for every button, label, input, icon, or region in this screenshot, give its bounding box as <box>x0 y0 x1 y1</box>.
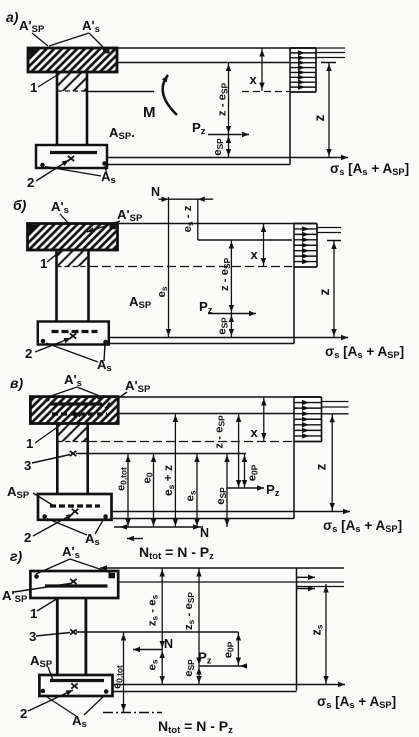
label e0P rotated (fig v) <box>247 464 260 481</box>
label A's (fig b) <box>51 199 69 216</box>
x-mark level line (fig g) <box>118 581 344 583</box>
svg-text:eSP: eSP <box>217 317 230 335</box>
svg-text:1: 1 <box>40 256 47 271</box>
svg-text:e0P: e0P <box>223 641 236 658</box>
bottom flange (fig g) <box>39 675 112 696</box>
A'SP level line (fig a) <box>117 62 336 64</box>
label zs-es rotated (fig g) <box>147 594 160 626</box>
sub-figure label a) <box>6 9 19 25</box>
svg-text:1: 1 <box>30 606 37 621</box>
A'SP level line (fig v) <box>118 413 348 415</box>
label 1 with leader (fig a) <box>30 75 58 96</box>
label e0tot rotated (fig g) <box>112 665 125 689</box>
corner square marker (fig b) <box>110 224 117 230</box>
x-mark tendon (fig b) <box>70 333 76 338</box>
svg-text:zs - eSP: zs - eSP <box>183 592 196 630</box>
label A's (top mild steel, fig a) <box>82 18 100 35</box>
label e0tot rotated (fig v) <box>116 467 129 491</box>
label eSP rotated (fig a) <box>212 138 225 156</box>
flange top line extended (fig b) <box>118 223 318 225</box>
corner square marker (fig a) <box>103 48 110 54</box>
x-mark top bar (fig g) <box>70 579 76 584</box>
label ASP region (fig a) <box>109 125 135 142</box>
dimension e0P (fig v) <box>242 454 247 489</box>
svg-text:es: es <box>185 490 198 501</box>
bar lines right of block (fig a) <box>316 48 345 58</box>
dimension e0P (fig g) <box>236 632 241 666</box>
label A'SP with leader (fig g) <box>2 584 70 606</box>
svg-text:M: M <box>143 104 156 121</box>
label A'SP (top steel prestressed, fig a) <box>19 18 45 35</box>
label 1 with leader (fig g) <box>30 598 59 622</box>
neutral axis dashed (fig v) <box>88 441 292 443</box>
dimension zs (fig g) <box>323 584 328 685</box>
svg-text:г): г) <box>10 548 22 564</box>
svg-text:z - eSP: z - eSP <box>219 257 232 291</box>
bottom flange (fig a) <box>36 145 107 168</box>
dimension e0tot (fig v) <box>125 454 130 528</box>
neutral axis dashed line (fig a) <box>88 91 290 93</box>
label es rotated (fig g) <box>147 659 160 670</box>
bottom steel dots (fig b) <box>41 339 108 345</box>
web compression hatch (fig a) <box>57 72 87 91</box>
bottom tension line with sigma arrow (fig v) <box>113 509 350 514</box>
svg-text:N: N <box>164 637 173 651</box>
dimension zs-es / es (fig g) <box>160 568 165 685</box>
axis line from mark 3 (fig v) <box>76 453 246 455</box>
neutral axis dashed (fig b) <box>89 266 292 268</box>
svg-text:z: z <box>317 288 332 295</box>
top flange hatched (fig v) <box>30 397 118 424</box>
dimension eSP (fig v) <box>224 454 229 528</box>
top dimension bar es-z (fig b) <box>158 197 213 202</box>
label eSP rotated (fig v) <box>215 487 228 505</box>
main vertical frame line (fig v) <box>293 397 295 519</box>
tendon bar dashed (fig b) <box>52 330 98 333</box>
dimension zs-eSP / eSP (fig g) <box>196 568 201 685</box>
svg-text:1: 1 <box>26 436 33 451</box>
top flange (fig g) <box>30 571 118 598</box>
dimension es (fig v) <box>194 454 199 528</box>
web (fig b) <box>57 250 89 322</box>
label zs rotated (fig g) <box>310 624 325 635</box>
svg-text:б): б) <box>13 197 27 213</box>
label sigma_s(As+ASP) (fig a) <box>330 161 409 177</box>
x depth dimension (fig a) <box>250 48 265 91</box>
label eSP rotated (fig g) <box>183 659 196 677</box>
web compression hatch (fig b) <box>57 250 89 267</box>
label sigma_s(As+ASP) (fig b) <box>325 344 404 360</box>
svg-text:z: z <box>312 114 327 121</box>
x-mark tendon (fig g) <box>71 683 77 688</box>
dimension z (fig b) <box>331 241 336 338</box>
second bottom line (fig g) <box>113 691 297 693</box>
bar lines right of block (fig v) <box>322 402 349 408</box>
top flange hatched (fig b) <box>28 224 118 251</box>
moment arrow M (fig a) <box>143 75 177 121</box>
svg-text:2: 2 <box>25 346 32 361</box>
svg-text:2: 2 <box>27 175 34 190</box>
second bottom line (fig v) <box>113 518 294 520</box>
svg-text:x: x <box>251 247 259 262</box>
svg-text:3: 3 <box>29 629 36 644</box>
svg-text:eSP: eSP <box>215 487 228 505</box>
svg-text:e0,tot: e0,tot <box>112 665 125 689</box>
A'SP level line (fig b) <box>198 239 341 242</box>
svg-text:e0P: e0P <box>247 464 260 481</box>
svg-text:es + z: es + z <box>161 465 176 496</box>
top flange hatched (fig a) <box>28 48 117 72</box>
label 1 with leader (fig b) <box>40 250 62 271</box>
label z rotated (fig b) <box>317 288 332 295</box>
corner triangle marker (fig b) <box>29 225 39 233</box>
svg-text:e0: e0 <box>142 472 155 483</box>
svg-text:2: 2 <box>20 706 27 721</box>
label es rotated (fig b) <box>156 286 169 297</box>
label 2 with leader (fig g) <box>20 690 73 721</box>
main vertical frame line (fig b) <box>293 224 295 344</box>
label z-eSP rotated (fig b) <box>219 257 232 291</box>
force Pz (fig v) <box>227 482 280 499</box>
bottom tension line with sigma arrow (fig b) <box>109 335 348 340</box>
svg-text:z - eSP: z - eSP <box>217 82 230 116</box>
bottom flange (fig v) <box>38 494 112 520</box>
dimension z (fig v) <box>330 414 335 512</box>
N force line (fig v) <box>114 524 203 529</box>
label As with leaders (fig g) <box>44 695 105 730</box>
label sigma_s(As+ASP) (fig g) <box>317 694 396 710</box>
force arrows right (fig g) <box>297 575 315 592</box>
bottom steel dots (fig v) <box>42 514 107 519</box>
formula Ntot (fig v) <box>139 544 214 562</box>
x-mark tendon centroid (fig a) <box>68 156 74 161</box>
x-mark web axis (fig v) <box>70 451 76 456</box>
label es+z rotated (fig v) <box>161 465 176 496</box>
svg-text:x: x <box>250 72 258 87</box>
svg-text:в): в) <box>10 375 23 391</box>
svg-text:N: N <box>151 185 160 199</box>
web compression hatch (fig v) <box>57 424 87 442</box>
label ASP region (fig b) <box>129 294 152 311</box>
tendon bar ASP (fig a) <box>50 151 97 154</box>
svg-text:es: es <box>147 659 160 670</box>
compressive stress block (fig b) <box>294 224 317 268</box>
svg-text:N: N <box>200 526 209 540</box>
label z rotated (fig a) <box>312 114 327 121</box>
label A'SP with arrow (fig v) <box>105 378 151 408</box>
label zs-eSP rotated (fig g) <box>183 592 196 630</box>
dimension z (fig a) <box>326 63 331 158</box>
label z-eSP rotated (fig a) <box>217 82 230 116</box>
bottom flange (fig b) <box>38 322 109 345</box>
N action line (fig b) <box>166 197 171 338</box>
top bar A'SP dashed (fig v) <box>52 412 107 415</box>
dimension e0tot (fig g) <box>121 632 126 713</box>
label As with leaders (fig b) <box>46 343 112 374</box>
x depth dimension (fig b) <box>251 224 267 267</box>
leaders from A's to flange corners (fig a) <box>49 33 104 48</box>
label 2 with leader (fig a) <box>27 160 69 190</box>
force Pz (fig b) <box>199 299 256 316</box>
label 2 with leader (fig v) <box>24 514 73 545</box>
x depth dimension (fig v) <box>251 397 267 442</box>
svg-text:es - z: es - z <box>182 205 195 232</box>
formula Ntot (fig g) <box>158 718 233 736</box>
compressive stress block (fig v) <box>294 397 322 442</box>
svg-text:eSP: eSP <box>183 659 196 677</box>
label z rotated (fig v) <box>314 463 329 470</box>
bar lines right of block (fig b) <box>317 228 341 233</box>
compressive stress block (fig a) <box>290 48 316 92</box>
second bottom line (fig b) <box>109 343 294 345</box>
web (fig g) <box>57 598 86 676</box>
label e0P rotated (fig g) <box>223 641 236 658</box>
dimension line z-eSP / eSP (fig a) <box>226 63 231 158</box>
label A's with V leaders (fig g) <box>36 544 110 574</box>
corner triangle marker (fig a) <box>30 50 40 58</box>
bottom steel dots (fig g) <box>41 689 109 694</box>
dimension es+z (fig v) <box>173 414 178 528</box>
svg-text:2: 2 <box>24 530 31 545</box>
label 2 with leader (fig b) <box>25 338 71 361</box>
label ASP with leader (fig g) <box>30 653 53 680</box>
sub-figure label v) <box>10 375 23 391</box>
force N arrow (fig g) <box>133 637 173 652</box>
top bar A's solid (fig v) <box>50 402 102 405</box>
label eSP rotated (fig b) <box>217 317 230 335</box>
sub-figure label b) <box>13 197 27 213</box>
top bar solid (fig g) <box>45 584 108 587</box>
tendon bar dashed (fig v) <box>50 504 100 507</box>
svg-text:e0,tot: e0,tot <box>116 467 129 491</box>
es-z reference line (fig b) <box>197 199 199 240</box>
x-mark web axis (fig g) <box>70 629 76 634</box>
force Pz arrow (fig g) <box>198 650 247 669</box>
x-mark top tendon (fig v) <box>74 411 80 416</box>
label As with leaders (fig v) <box>47 519 104 549</box>
label 3 with leader (fig g) <box>29 629 70 644</box>
dimension e0 (fig v) <box>151 454 156 528</box>
svg-text:3: 3 <box>24 458 31 473</box>
tendon bar solid (fig g) <box>50 679 104 682</box>
Ntot force line with left arrow (fig g) <box>100 565 344 570</box>
label N (fig v) <box>200 526 209 540</box>
e0tot bottom extension arrow (fig v) <box>127 536 143 541</box>
label es-z rotated (fig b) <box>182 205 195 232</box>
force Pz (fig a) <box>192 120 249 137</box>
svg-text:es: es <box>156 286 169 297</box>
corner square (fig g) <box>109 573 116 579</box>
corner dot (fig g) <box>34 574 39 579</box>
axis line from mark 3 (fig g) <box>76 631 238 633</box>
middle bar line (fig g) <box>297 586 345 588</box>
svg-text:а): а) <box>6 9 19 25</box>
label N (fig b) <box>151 185 160 199</box>
web (fig a) <box>57 72 87 145</box>
sub-figure label g) <box>10 548 22 564</box>
label 3 with leader (fig v) <box>24 455 70 474</box>
flange corner dots (fig v) <box>46 396 102 402</box>
svg-text:eSP: eSP <box>212 138 225 156</box>
x-mark tendon (fig v) <box>72 509 78 514</box>
main vertical frame line (fig g) <box>296 568 298 691</box>
leader from A'SP to flange (fig a) <box>32 33 48 46</box>
flange top line extended (fig v) <box>118 396 321 398</box>
label e0 rotated (fig v) <box>142 472 155 483</box>
label z-eSP rotated (fig v) <box>214 415 227 449</box>
bottom tension line with sigma arrow (fig a) <box>107 155 348 160</box>
web (fig v) <box>57 424 87 495</box>
svg-text:z - eSP: z - eSP <box>214 415 227 449</box>
second bottom line (fig a) <box>107 164 290 166</box>
label A'SP with arrow (fig b) <box>87 207 143 232</box>
label sigma_s(As+ASP) (fig v) <box>323 518 402 534</box>
label A's with V leaders (fig v) <box>48 372 99 397</box>
flange top line extended (fig a) <box>117 47 316 49</box>
svg-text:zs - es: zs - es <box>147 594 160 626</box>
label ASP with leader (fig v) <box>7 484 54 506</box>
svg-text:z: z <box>314 463 329 470</box>
leader A's (fig b) <box>60 214 68 223</box>
bottom tension line with sigma arrow (fig g) <box>113 682 346 687</box>
dimension z-eSP (fig v) <box>236 414 241 489</box>
label As with leaders (fig a) <box>45 166 116 186</box>
svg-text:x: x <box>251 425 259 440</box>
svg-text:1: 1 <box>30 80 37 95</box>
dimension line z-eSP / eSP (fig b) <box>229 240 234 338</box>
bottom steel dots As (fig a) <box>40 161 107 167</box>
main vertical frame line (fig a) <box>289 48 291 165</box>
dash-dot baseline (fig g) <box>103 712 162 714</box>
label es rotated (fig v) <box>185 490 198 501</box>
label 1 with leader (fig v) <box>26 425 61 452</box>
